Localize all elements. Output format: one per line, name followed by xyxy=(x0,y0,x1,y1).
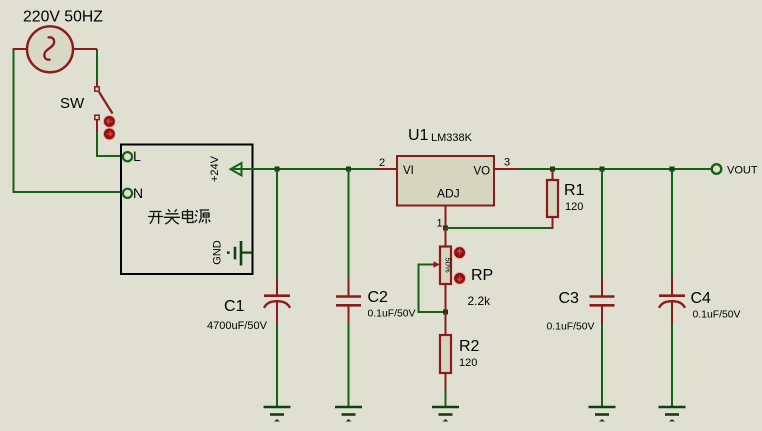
potentiometer RP body xyxy=(440,247,451,285)
capacitor C2 plates xyxy=(336,297,361,306)
svg-text:GND: GND xyxy=(212,240,224,265)
resistor R2 top stub xyxy=(445,312,447,335)
wire rail to C1 xyxy=(276,169,278,278)
svg-text:0.1uF/50V: 0.1uF/50V xyxy=(693,310,741,321)
svg-text:2: 2 xyxy=(379,157,385,169)
switch SW toggle button down xyxy=(104,128,116,140)
svg-text:1: 1 xyxy=(437,218,443,230)
svg-text:3: 3 xyxy=(504,157,510,169)
capacitor C2 top lead xyxy=(348,278,350,296)
svg-text:C2: C2 xyxy=(368,289,389,306)
potentiometer RP wiper arrow xyxy=(432,261,440,267)
PSU GND pin symbol xyxy=(227,241,253,266)
svg-text:U1: U1 xyxy=(408,127,429,144)
svg-text:VO: VO xyxy=(474,166,491,178)
capacitor C4 bottom lead xyxy=(671,302,673,323)
node junction RP bottom xyxy=(443,310,448,315)
node junction rail C4 xyxy=(670,167,675,172)
wire rail to C4 xyxy=(671,169,673,278)
svg-text:220V 50HZ: 220V 50HZ xyxy=(23,9,103,26)
svg-text:C1: C1 xyxy=(224,298,245,315)
svg-text:50%: 50% xyxy=(444,257,453,272)
AC source right pin stub xyxy=(73,48,97,50)
switch SW toggle button up xyxy=(104,116,116,128)
svg-text:4700uF/50V: 4700uF/50V xyxy=(207,320,268,332)
wire ADJ to R1 bottom xyxy=(446,228,553,229)
PSU +24V output triangle xyxy=(231,163,242,175)
svg-text:SW: SW xyxy=(60,95,85,112)
svg-text:N: N xyxy=(133,185,143,201)
terminal VOUT xyxy=(712,164,722,174)
node junction rail C1 xyxy=(275,167,280,172)
开 xyxy=(148,212,163,224)
AC source circle xyxy=(27,26,73,72)
U1 LM338K body xyxy=(397,156,494,206)
svg-text:120: 120 xyxy=(459,357,477,369)
capacitor C1 top lead xyxy=(276,278,278,295)
wire right vertical source to switch xyxy=(96,49,98,83)
wire C3 to ground xyxy=(601,323,603,406)
switch SW top contact xyxy=(95,87,99,91)
U1 pin VI stub xyxy=(375,168,397,170)
capacitor C2 bottom lead xyxy=(348,305,350,323)
wire rail to C2 xyxy=(348,169,350,278)
capacitor C1 plates xyxy=(264,296,290,308)
关 xyxy=(164,209,180,224)
svg-text:VOUT: VOUT xyxy=(727,165,758,177)
capacitor C1 bottom lead xyxy=(276,302,278,323)
switch SW blade xyxy=(99,92,113,114)
svg-text:RP: RP xyxy=(471,267,493,284)
svg-text:ADJ: ADJ xyxy=(437,187,460,201)
resistor R1 top stub xyxy=(552,169,554,180)
svg-text:R2: R2 xyxy=(459,338,480,355)
wire C4 to ground xyxy=(671,323,673,406)
resistor R2 body xyxy=(440,335,451,373)
potentiometer RP button down xyxy=(454,272,466,284)
ground C3 xyxy=(589,407,616,422)
wire rail to C3 xyxy=(601,169,603,278)
node junction rail R1 xyxy=(550,167,555,172)
potentiometer RP bottom stub xyxy=(445,284,447,312)
svg-text:L: L xyxy=(133,148,141,164)
capacitor C3 top lead xyxy=(601,278,603,296)
switch SW top pin stub xyxy=(96,82,98,87)
svg-text:120: 120 xyxy=(565,201,583,213)
capacitor C3 plates xyxy=(590,297,615,306)
potentiometer RP button up xyxy=(454,247,466,259)
PSU box 开关电源 xyxy=(121,145,253,275)
wire RP wiper to bottom xyxy=(419,265,446,313)
svg-text:R1: R1 xyxy=(564,182,585,199)
svg-text:+24V: +24V xyxy=(209,155,221,182)
capacitor C4 top lead xyxy=(671,278,673,295)
switch SW bottom contact xyxy=(95,115,99,119)
resistor R2 bottom stub xyxy=(445,373,447,390)
potentiometer RP top stub xyxy=(445,228,447,247)
ground R2 xyxy=(432,407,459,422)
svg-text:LM338K: LM338K xyxy=(431,132,473,144)
源 xyxy=(195,210,211,224)
node junction rail C3 xyxy=(600,167,605,172)
电 xyxy=(183,209,194,223)
svg-text:2.2k: 2.2k xyxy=(468,294,492,308)
wire R2 to ground xyxy=(445,390,447,406)
svg-text:0.1uF/50V: 0.1uF/50V xyxy=(368,309,416,320)
U1 pin VO stub xyxy=(494,168,519,170)
PSU pin N terminal xyxy=(123,189,132,198)
wire switch to L pin xyxy=(97,132,122,156)
AC source left pin stub xyxy=(13,48,28,50)
capacitor C3 bottom lead xyxy=(601,305,603,323)
ground C1 xyxy=(264,407,291,422)
U1 pin ADJ stub xyxy=(445,206,447,229)
ground C2 xyxy=(335,407,362,422)
wire left vertical from source to N xyxy=(14,49,123,192)
wire C2 to ground xyxy=(348,323,350,406)
ground C4 xyxy=(659,407,686,422)
svg-text:C4: C4 xyxy=(691,290,712,307)
svg-text:0.1uF/50V: 0.1uF/50V xyxy=(547,322,595,333)
node junction rail C2 xyxy=(346,167,351,172)
svg-text:C3: C3 xyxy=(559,290,580,307)
capacitor C4 plates xyxy=(659,296,685,308)
wire +24V rail xyxy=(231,168,712,170)
resistor R1 bottom stub xyxy=(552,217,554,229)
svg-text:VI: VI xyxy=(403,165,414,177)
PSU name 开关电源 (hand-drawn glyphs) xyxy=(148,209,210,224)
wire C1 to ground xyxy=(276,323,278,406)
resistor R1 body xyxy=(547,180,558,217)
PSU pin L terminal xyxy=(123,152,132,161)
node junction ADJ xyxy=(443,226,448,231)
switch SW bottom pin stub xyxy=(96,120,98,133)
